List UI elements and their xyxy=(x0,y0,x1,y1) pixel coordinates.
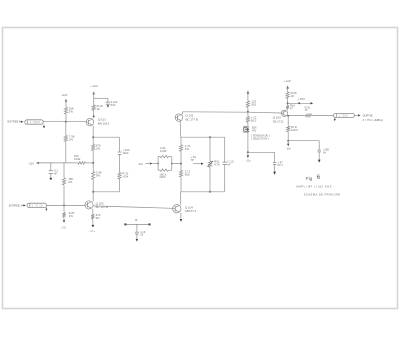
svg-text:2%: 2% xyxy=(69,110,74,114)
svg-text:+2%: +2% xyxy=(122,174,128,178)
wire R17 down xyxy=(287,98,289,105)
capacitor C1 value xyxy=(111,100,118,107)
transistor Q104 xyxy=(85,201,93,209)
transistor Q102 xyxy=(175,114,183,122)
resistor R4 value xyxy=(96,143,101,150)
node SORTIE label xyxy=(363,113,373,117)
resistor R9 value xyxy=(96,170,102,177)
resistor R8 value xyxy=(69,211,75,218)
svg-text:SORTIE: SORTIE xyxy=(363,113,373,117)
node ENTREE 1 label xyxy=(8,120,22,124)
ground below C5 xyxy=(273,165,276,175)
wire to C5 xyxy=(248,152,275,162)
ground dot Q104 xyxy=(92,225,94,227)
resistor R3 xyxy=(92,98,95,110)
svg-text:188 07 2: 188 07 2 xyxy=(185,209,197,213)
power arrow up (out) xyxy=(286,86,289,92)
power -12V rail label xyxy=(28,161,34,165)
resistor R14 value xyxy=(159,172,166,179)
testpoint +5V arrow xyxy=(288,102,314,104)
node output tap xyxy=(287,115,289,117)
svg-text:-12v: -12v xyxy=(246,159,252,162)
resistor R12 xyxy=(179,170,182,177)
wire input2 to Q104 xyxy=(47,204,86,206)
svg-text:2%: 2% xyxy=(69,138,74,142)
svg-text:-12V: -12V xyxy=(28,161,34,165)
connector J1 input xyxy=(25,120,44,124)
resistor R3 value xyxy=(97,104,103,111)
svg-text:( SELECTION ): ( SELECTION ) xyxy=(251,138,268,141)
wire to C6 xyxy=(288,141,319,150)
caption line 2 xyxy=(304,193,341,197)
svg-text:+ 12V: + 12V xyxy=(284,79,291,83)
wire R1 to input line xyxy=(65,114,67,122)
testpoint +5V label xyxy=(298,97,306,101)
node SORTIE note xyxy=(363,119,383,122)
transistor Q105 ref xyxy=(185,206,197,214)
resistor R1 xyxy=(64,107,67,114)
wire R20 to J3 xyxy=(312,114,334,116)
wire rail to R9 xyxy=(92,163,94,172)
capacitor C3 value xyxy=(54,168,58,175)
diode D1 zener xyxy=(244,126,250,132)
svg-text:uF: uF xyxy=(54,171,58,175)
capacitor C7 xyxy=(135,232,139,234)
transistor Q102 ref xyxy=(186,114,198,122)
svg-text:2N 1711: 2N 1711 xyxy=(273,119,284,123)
capacitor C5 xyxy=(273,163,276,165)
wire output tap right xyxy=(288,114,305,116)
ground below C6 xyxy=(318,152,321,163)
svg-text:+12V: +12V xyxy=(61,93,68,97)
resistor R2 value xyxy=(69,135,75,142)
svg-text:5%: 5% xyxy=(96,173,101,177)
testpoint -V label xyxy=(246,159,252,162)
trimmer RV1 xyxy=(207,161,213,168)
caption line 1 xyxy=(296,184,332,188)
svg-text:uF: uF xyxy=(228,162,232,166)
resistor R11 value xyxy=(185,144,191,151)
wire Q102 collector corner xyxy=(182,112,184,115)
wire node to R16 xyxy=(247,112,249,117)
wire trimmer vert lower xyxy=(209,167,211,192)
svg-text:9V1: 9V1 xyxy=(252,130,257,133)
node Q104 collector xyxy=(92,191,94,193)
capacitor C6 xyxy=(318,150,321,152)
wire cap vert upper xyxy=(224,137,226,162)
wire input2 junction down xyxy=(63,205,65,211)
wire feedback top xyxy=(93,136,119,138)
svg-text:2200: 2200 xyxy=(159,175,165,179)
capacitor C3 xyxy=(49,171,53,174)
capacitor C1 xyxy=(106,102,110,104)
node feedback tap xyxy=(92,136,94,138)
resistor R17 xyxy=(286,92,289,98)
wire feedback vert lower xyxy=(119,179,121,192)
resistor R5 xyxy=(118,173,121,179)
capacitor C2 value xyxy=(122,148,130,155)
svg-text:16uF: 16uF xyxy=(122,151,129,155)
svg-text:6V 1: 6V 1 xyxy=(278,163,284,167)
power arrow -12V rail xyxy=(36,162,78,164)
testpoint +6V label xyxy=(191,155,197,162)
svg-text:5%: 5% xyxy=(185,147,190,151)
testpoint -V2 arrow xyxy=(287,141,289,147)
svg-text:2%: 2% xyxy=(68,180,73,184)
svg-text:-12v: -12v xyxy=(286,148,292,151)
svg-text:ENTREE 2: ENTREE 2 xyxy=(9,204,23,208)
svg-text:+ 12V: + 12V xyxy=(90,84,98,88)
testpoint -V2 label xyxy=(286,148,292,151)
resistor R7 xyxy=(62,178,65,185)
svg-text:120.5: 120.5 xyxy=(291,128,298,132)
wire rail right xyxy=(85,162,93,164)
resistor R20 xyxy=(306,114,312,117)
resistor R19 xyxy=(287,126,290,131)
svg-text:TP: TP xyxy=(191,158,195,162)
wire input1 to base xyxy=(43,121,86,123)
node web bottom trimmer xyxy=(209,191,211,193)
capacitor C4 value xyxy=(228,159,234,166)
power -12V label mid xyxy=(138,162,144,166)
wire R16 to D1 xyxy=(247,122,249,126)
power arrow up (bias) xyxy=(65,99,67,107)
svg-text:56.2: 56.2 xyxy=(251,119,257,123)
svg-text:+ 5V6: + 5V6 xyxy=(298,97,306,101)
svg-text:AMPLI BF 1/162 KHZ: AMPLI BF 1/162 KHZ xyxy=(296,184,332,188)
svg-text:560: 560 xyxy=(185,172,190,176)
capacitor C5 value xyxy=(278,160,284,167)
wire D1 down xyxy=(247,132,249,152)
wire R3 to Q101 xyxy=(93,110,95,118)
capacitor C2 xyxy=(118,152,122,154)
resistor R10 value xyxy=(96,213,101,220)
wire R18 to Q103 xyxy=(287,109,289,111)
wire web left upper xyxy=(180,137,182,145)
resistor R13 value xyxy=(160,146,167,153)
wire R2 to rail xyxy=(65,142,67,163)
wire rail to C3 xyxy=(50,163,52,171)
wire web left lower xyxy=(180,177,182,192)
resistor R19 value xyxy=(291,125,298,132)
resistor R8 xyxy=(62,212,65,217)
wire Q104 collector up xyxy=(92,192,94,202)
wire R7 to input2 line xyxy=(63,185,65,206)
node collector Q101 xyxy=(93,115,95,117)
wire R9 to Q104 xyxy=(92,180,94,192)
svg-text:63V: 63V xyxy=(111,103,116,107)
svg-text:2%: 2% xyxy=(69,214,74,218)
node junction bias input2 xyxy=(63,204,65,206)
ground below C7 xyxy=(136,234,138,242)
trimmer RV1 value xyxy=(214,159,220,166)
wire rail to R7 xyxy=(63,163,65,178)
wire to C1 branch xyxy=(94,98,108,102)
node web top trimmer xyxy=(209,136,211,138)
wire trimmer vert upper xyxy=(209,137,211,161)
node rail Q101 xyxy=(92,162,94,164)
node zener chain top xyxy=(247,111,249,113)
power -12V label (bias) xyxy=(61,93,68,97)
connector J2 input xyxy=(27,203,47,207)
wire Q102 to Q103 base xyxy=(183,112,282,113)
wire R10 down xyxy=(92,219,94,224)
node zener chain bottom xyxy=(247,151,249,153)
svg-text:1K: 1K xyxy=(291,94,295,98)
transistor Q101 xyxy=(86,118,94,126)
capacitor C7 value xyxy=(140,230,146,237)
ground at J3 xyxy=(334,117,336,121)
resistor R17 value xyxy=(291,91,297,98)
arrow out of J3 xyxy=(354,114,360,116)
svg-text:BC 177 B: BC 177 B xyxy=(186,118,198,122)
svg-text:1 7500: 1 7500 xyxy=(30,121,40,124)
testpoint -V arrow xyxy=(247,152,249,158)
resistor R1 value xyxy=(69,107,74,114)
power +12V label (out) xyxy=(284,79,291,83)
svg-text:-12v: -12v xyxy=(138,162,144,166)
wire R4 to rail xyxy=(92,151,94,163)
arrow into input 2 xyxy=(22,204,26,206)
resistor R20 value xyxy=(305,105,311,112)
transistor Q103 ref xyxy=(273,116,284,124)
svg-text:6: 6 xyxy=(317,174,321,181)
wire Q105 collector xyxy=(180,192,182,205)
caption Fig 6 xyxy=(306,174,321,181)
node Q103 emitter bottom xyxy=(287,140,289,142)
diode D1 note xyxy=(251,135,269,141)
svg-text:1 75 00: 1 75 00 xyxy=(32,205,43,208)
power arrow up +12V xyxy=(93,92,95,99)
wire R15 to node xyxy=(247,107,249,112)
ground label Q104 xyxy=(89,231,95,233)
resistor R16 xyxy=(246,117,249,123)
resistor R11 xyxy=(179,145,182,151)
transistor Q105 xyxy=(173,205,181,213)
resistor R18 xyxy=(286,106,289,109)
svg-text:6V: 6V xyxy=(323,151,326,155)
node junction bias/input1 xyxy=(65,121,67,123)
svg-text:910: 910 xyxy=(251,103,256,107)
ground label R8 xyxy=(62,227,67,229)
node collector Q103 xyxy=(287,102,289,104)
ground at J2 xyxy=(45,207,47,211)
svg-text:BC 107 B: BC 107 B xyxy=(96,205,108,209)
svg-text:2%: 2% xyxy=(96,146,101,150)
capacitor C4 xyxy=(223,162,227,165)
wire input line down xyxy=(65,122,67,136)
capacitor C6 value xyxy=(323,148,329,155)
wire cap vert lower xyxy=(224,165,226,192)
resistor R10 xyxy=(91,214,94,219)
wire Q102 emitter down xyxy=(179,121,182,137)
wire Q104 emitter down xyxy=(92,209,94,214)
wire Q105 emitter xyxy=(180,213,182,219)
wire web left mid xyxy=(180,151,182,170)
svg-text:Z = 75 n (+6dB/m): Z = 75 n (+6dB/m) xyxy=(363,119,383,122)
resistor R16 value xyxy=(251,116,257,123)
power arrow up (zener chain) xyxy=(247,91,250,101)
svg-text:BN 1613: BN 1613 xyxy=(98,122,110,126)
transistor Q103 xyxy=(281,110,287,116)
wire Q104 to Q105 xyxy=(93,206,172,208)
wire web top rail xyxy=(181,136,225,138)
svg-text:5%: 5% xyxy=(96,216,101,220)
resistor R6 value xyxy=(74,154,81,161)
node ENTREE 2 label xyxy=(9,204,23,208)
shield symbol label xyxy=(135,219,138,222)
wire emitter Q101 down xyxy=(92,126,94,145)
power +12V label xyxy=(90,84,98,88)
svg-text:JP: JP xyxy=(135,219,138,222)
resistor R4 xyxy=(92,145,95,151)
resistor R6 in rail xyxy=(78,162,85,165)
ground below Q105 xyxy=(180,219,183,222)
wire feedback bottom xyxy=(93,191,119,193)
diode D1 ref xyxy=(252,127,257,133)
resistor R12 value xyxy=(185,169,191,176)
resistor network R13/R14 box xyxy=(157,155,172,171)
node web left mid xyxy=(180,163,182,165)
power arrow mid xyxy=(146,162,159,164)
transistor Q101 ref xyxy=(98,117,110,125)
transistor Q104 ref xyxy=(96,202,108,209)
testpoint +6V arrow xyxy=(193,163,203,165)
resistor R5 value xyxy=(122,171,128,178)
resistor R18 value xyxy=(290,104,295,111)
svg-text:( O ): ( O ) xyxy=(62,227,67,229)
resistor R15 xyxy=(246,101,249,107)
wire shield down xyxy=(136,224,138,232)
svg-text:1 7500: 1 7500 xyxy=(339,116,349,118)
svg-text:1K: 1K xyxy=(97,107,101,111)
svg-text:Fig: Fig xyxy=(306,176,313,181)
wire Q103 emitter down xyxy=(287,116,289,126)
resistor R2 xyxy=(64,136,67,142)
wire C2 to R5 xyxy=(119,155,121,173)
wire feedback vert upper xyxy=(119,137,121,152)
ground below R8 xyxy=(63,217,65,223)
ground below C1 xyxy=(107,104,109,107)
shield symbol bar xyxy=(124,223,150,225)
ground at J1 xyxy=(43,124,45,128)
svg-text:1/2W: 1/2W xyxy=(160,149,167,153)
svg-text:1/2W: 1/2W xyxy=(74,157,81,161)
resistor R9 xyxy=(92,172,95,180)
wire web bottom rail xyxy=(181,191,225,193)
svg-text:4.7K: 4.7K xyxy=(214,162,220,166)
svg-text:SCHEMA DE PRINCIPE: SCHEMA DE PRINCIPE xyxy=(304,193,341,197)
svg-text:+ C +: + C + xyxy=(89,231,95,233)
arrow into input 1 xyxy=(19,121,23,123)
resistor R15 value xyxy=(251,100,256,107)
resistor R7 value xyxy=(68,177,73,184)
wire box to web xyxy=(172,163,181,165)
connector J3 output xyxy=(333,113,354,117)
ground dot below C3 xyxy=(50,174,52,180)
wire R19 down xyxy=(287,132,289,141)
